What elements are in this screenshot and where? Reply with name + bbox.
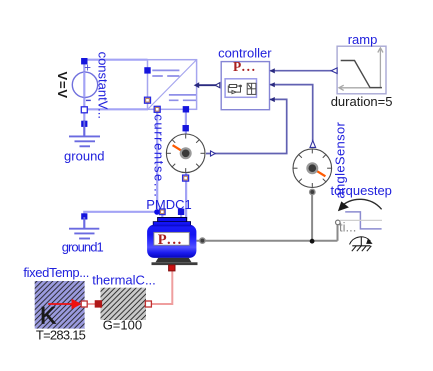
svg-text:constantV...: constantV... <box>96 52 111 119</box>
svg-text:+: + <box>84 63 91 75</box>
svg-text:P...: P... <box>233 59 257 74</box>
svg-text:thermalC...: thermalC... <box>92 272 156 287</box>
svg-text:controller: controller <box>218 45 272 60</box>
svg-text:torquestep: torquestep <box>330 183 391 198</box>
svg-text:ground: ground <box>64 149 104 164</box>
svg-text:P...: P... <box>158 232 183 248</box>
svg-text:PMDC1: PMDC1 <box>146 197 192 212</box>
svg-text:T=283.15: T=283.15 <box>36 327 86 342</box>
svg-text:currentse...: currentse... <box>151 114 166 198</box>
svg-text:V=V: V=V <box>55 72 70 99</box>
svg-text:ground1: ground1 <box>62 240 104 255</box>
svg-text:fixedTemp...: fixedTemp... <box>23 265 89 280</box>
svg-text:ti...: ti... <box>339 220 356 235</box>
svg-text:K: K <box>40 303 56 330</box>
svg-text:duration=5: duration=5 <box>331 94 393 109</box>
svg-text:ramp: ramp <box>348 32 378 47</box>
svg-text:G=100: G=100 <box>103 318 142 333</box>
